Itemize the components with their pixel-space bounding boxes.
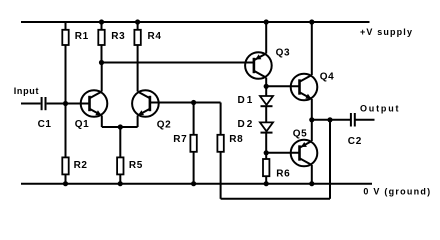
svg-text:R3: R3 (111, 31, 125, 42)
svg-text:Q3: Q3 (276, 47, 291, 58)
svg-text:+V supply: +V supply (360, 27, 413, 37)
svg-text:Input: Input (14, 86, 40, 96)
svg-text:D1: D1 (238, 95, 255, 106)
svg-text:R6: R6 (276, 169, 290, 180)
svg-text:Q5: Q5 (293, 128, 308, 139)
svg-text:Output: Output (360, 103, 400, 113)
svg-text:C1: C1 (38, 119, 52, 130)
svg-text:R8: R8 (229, 134, 243, 145)
svg-text:R1: R1 (75, 31, 89, 42)
svg-text:D2: D2 (238, 119, 255, 130)
svg-text:R2: R2 (74, 160, 88, 171)
svg-text:Q4: Q4 (320, 71, 335, 82)
svg-text:R4: R4 (148, 31, 162, 42)
svg-text:R7: R7 (173, 134, 187, 145)
svg-text:0 V (ground): 0 V (ground) (363, 187, 431, 197)
svg-text:Q2: Q2 (157, 120, 172, 131)
svg-text:C2: C2 (348, 136, 362, 147)
svg-text:R5: R5 (129, 160, 143, 171)
svg-text:Q1: Q1 (75, 119, 90, 130)
